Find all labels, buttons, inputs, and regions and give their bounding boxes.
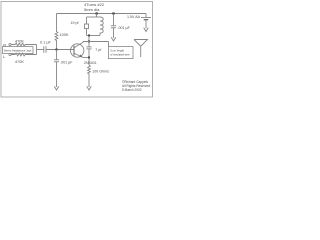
- svg-text:2N4401: 2N4401: [84, 61, 97, 65]
- trimmer capacitor 19pf: [85, 24, 89, 29]
- svg-text:7 pf: 7 pf: [95, 48, 101, 52]
- wire top rail: [57, 13, 147, 15]
- ground emitter: [87, 86, 92, 90]
- wire emitter lead: [74, 53, 83, 57]
- svg-text:0.1 µF: 0.1 µF: [40, 41, 52, 45]
- wire 7pf bottom lead: [88, 49, 90, 58]
- inductor L1 coil: [100, 17, 103, 36]
- antenna note box: [109, 47, 134, 59]
- wire tank stub: [96, 14, 98, 18]
- wire summing bar: [36, 45, 38, 55]
- node collector junction: [88, 41, 90, 43]
- border frame: [1, 2, 153, 98]
- svg-text:470K: 470K: [15, 60, 24, 64]
- svg-text:5 March 2002: 5 March 2002: [122, 88, 142, 92]
- wire bypass drop: [56, 50, 58, 60]
- svg-text:L: L: [3, 54, 6, 59]
- capacitor 0.1uF: [43, 46, 45, 52]
- node base junction: [56, 49, 58, 51]
- svg-text:5 cm length: 5 cm length: [110, 49, 124, 53]
- svg-text:Stereo Headphone Jack: Stereo Headphone Jack: [4, 49, 33, 53]
- ground battery: [144, 28, 149, 32]
- capacitor 7pf: [86, 46, 91, 48]
- capacitor .001uF base bypass: [54, 59, 59, 61]
- node emitter junction: [88, 57, 90, 59]
- wire emitter horizontal: [83, 57, 89, 59]
- wire collector horizontal: [83, 41, 109, 43]
- svg-text:470K: 470K: [15, 39, 24, 43]
- transistor Q1 2N4401: [71, 44, 84, 57]
- ground supply bypass: [111, 37, 116, 41]
- svg-text:100K: 100K: [60, 33, 69, 37]
- ground base bypass: [54, 86, 59, 90]
- node tank-bottom junction: [88, 35, 90, 37]
- wire supply bypass to ground: [113, 28, 115, 38]
- svg-text:.001 µF: .001 µF: [118, 26, 131, 30]
- resistor 470K upper: [11, 43, 36, 46]
- resistor 100 Ohms: [88, 58, 91, 88]
- wire tank left branch upper: [86, 17, 88, 24]
- wire to coupling cap: [37, 49, 44, 51]
- resistor 100K: [55, 14, 58, 50]
- capacitor .001uF supply bypass: [111, 25, 116, 27]
- svg-text:.001 µF: .001 µF: [60, 60, 73, 64]
- svg-text:5mm dia: 5mm dia: [84, 7, 100, 12]
- wire 7pf top lead: [88, 42, 90, 47]
- jack box: [3, 47, 34, 54]
- svg-text:1.5V AA: 1.5V AA: [127, 15, 141, 19]
- wire tank left branch lower: [86, 29, 88, 36]
- antenna ANT1: [134, 40, 148, 58]
- svg-text:of insulated wire: of insulated wire: [110, 53, 130, 57]
- wire battery drop: [145, 14, 147, 18]
- svg-text:19 pf: 19 pf: [71, 21, 79, 25]
- node supply bypass junction: [112, 12, 114, 14]
- wire collector riser: [88, 36, 90, 42]
- svg-text:100 Ohms: 100 Ohms: [92, 70, 109, 74]
- wire bypass to ground: [56, 62, 58, 87]
- node tank-top junction: [96, 12, 98, 14]
- wire tank bottom edge: [87, 35, 101, 37]
- wire to antenna box: [108, 42, 110, 47]
- wire battery to ground: [145, 20, 147, 29]
- wire base wire: [46, 49, 74, 51]
- wire tank top edge: [87, 16, 101, 18]
- wire collector lead: [74, 42, 83, 48]
- resistor 470K lower: [11, 53, 36, 56]
- wire supply bypass drop: [113, 14, 115, 26]
